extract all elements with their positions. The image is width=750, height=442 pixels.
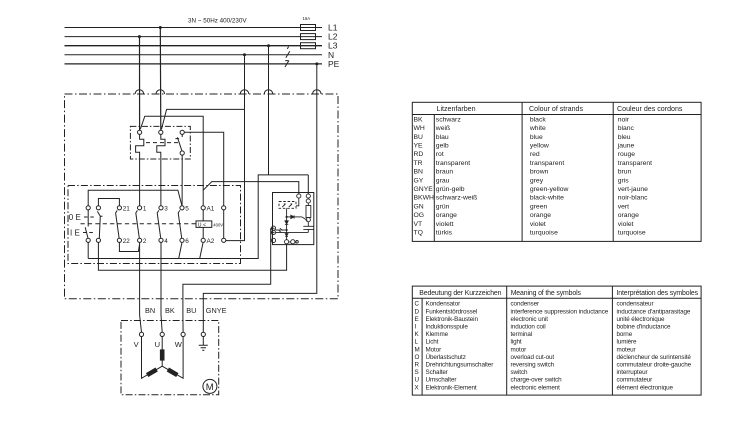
svg-text:R: R — [415, 362, 420, 369]
wire N tap down to link terminal — [226, 55, 245, 241]
motor earth terminal circle — [201, 332, 205, 336]
wire pole1 node to coil A1 — [140, 116, 203, 206]
module sensor dashed box — [279, 202, 296, 209]
svg-text:grau: grau — [436, 177, 450, 184]
cable entry arc L1 tap — [156, 90, 165, 94]
svg-text:yellow: yellow — [530, 143, 549, 150]
svg-text:rot: rot — [436, 151, 444, 158]
disconnect mark on PE — [285, 60, 289, 67]
wire terminal 4 down to motor U — [161, 242, 162, 332]
svg-text:schwarz-weiß: schwarz-weiß — [436, 195, 478, 202]
pushbutton contact a bottom circle — [86, 238, 90, 242]
svg-text:Meaning of the symbols: Meaning of the symbols — [511, 290, 582, 297]
svg-text:GNYE: GNYE — [206, 306, 227, 315]
svg-text:GN: GN — [414, 203, 424, 210]
module left vertical wire — [286, 217, 288, 240]
svg-text:Couleur des cordons: Couleur des cordons — [617, 105, 683, 113]
svg-text:9: 9 — [295, 241, 297, 245]
pushbutton contact a top circle — [86, 206, 90, 210]
svg-text:Interprétation des symboles: Interprétation des symboles — [617, 290, 699, 297]
svg-text:brown: brown — [530, 169, 549, 176]
wire module right-top feed — [307, 175, 309, 194]
machine enclosure boundary (dash-dot box) — [65, 94, 339, 299]
svg-text:OG: OG — [414, 212, 425, 219]
svg-text:BK: BK — [165, 306, 175, 315]
svg-text:BU: BU — [186, 306, 196, 315]
svg-text:Klemme: Klemme — [426, 331, 449, 338]
svg-text:Überlastschutz: Überlastschutz — [426, 353, 466, 361]
svg-text:U <: U < — [198, 222, 206, 228]
wire terminal 2 down to motor V — [140, 242, 142, 332]
module inner wire left terminal to dot — [276, 229, 287, 231]
contact 1-2 bottom circle — [138, 238, 142, 242]
svg-text:E: E — [415, 316, 419, 323]
svg-text:orange: orange — [530, 212, 551, 219]
svg-text:green: green — [530, 203, 548, 210]
link terminal bottom circle — [222, 238, 226, 242]
svg-text:vert: vert — [618, 203, 629, 210]
svg-text:22: 22 — [123, 238, 131, 245]
contact 3-4 top circle — [159, 206, 163, 210]
svg-text:RD: RD — [414, 151, 424, 158]
motor symbol M circle — [203, 379, 217, 393]
svg-text:grey: grey — [530, 177, 544, 184]
svg-text:BN: BN — [145, 306, 155, 315]
svg-text:2: 2 — [143, 238, 147, 245]
module bottom terminal tiny circle — [296, 241, 299, 244]
svg-text:interference suppression induc: interference suppression inductance — [511, 308, 609, 315]
wire bridge contact b top to terminal 21 — [98, 199, 119, 206]
svg-text:élément électronique: élément électronique — [617, 384, 674, 391]
svg-text:Umschalter: Umschalter — [426, 377, 457, 384]
svg-text:electronic unit: electronic unit — [511, 316, 549, 323]
wire contact a bottom to L3 net — [87, 242, 89, 258]
fuse F3 — [301, 43, 316, 49]
svg-text:3: 3 — [164, 206, 168, 213]
wire contact b bottom to module bottom terminal — [98, 242, 286, 270]
cable entry arc L2 tap — [135, 90, 144, 94]
svg-text:blue: blue — [530, 134, 543, 141]
svg-text:light: light — [511, 339, 522, 346]
svg-text:Drehrichtungsumschalter: Drehrichtungsumschalter — [426, 362, 494, 369]
svg-text:U: U — [155, 340, 160, 349]
svg-text:BKWH: BKWH — [414, 195, 434, 202]
motor M boundary (dash-dot box) — [121, 321, 219, 395]
coil terminal A1 circle — [201, 206, 205, 210]
svg-text:A2: A2 — [207, 238, 215, 245]
off button link dashes — [84, 216, 95, 218]
svg-text:unité électronique: unité électronique — [617, 316, 666, 323]
svg-text:vert-jaune: vert-jaune — [618, 186, 648, 193]
module bottom terminal circle 1 — [285, 240, 289, 244]
motor terminal U circle — [160, 332, 164, 336]
fuse F1 with rating 16A — [301, 16, 316, 31]
overload pole 1 heater element and wire down to terminal 1 — [136, 134, 144, 205]
svg-text:grün-gelb: grün-gelb — [436, 186, 465, 193]
svg-text:türkis: türkis — [436, 230, 453, 237]
svg-text:U: U — [415, 377, 420, 384]
module light arrows — [279, 228, 283, 233]
contact 5-6 lever — [178, 210, 182, 238]
svg-text:S: S — [415, 369, 419, 376]
svg-text:Motor: Motor — [426, 346, 442, 353]
module transistor lines — [302, 217, 309, 226]
svg-text:0 E: 0 E — [69, 213, 81, 222]
table 1 headers — [437, 105, 683, 113]
contact 3-4 lever — [157, 210, 161, 238]
svg-text:brun: brun — [618, 169, 632, 176]
svg-text:Elektronik-Baustein: Elektronik-Baustein — [426, 316, 479, 323]
svg-text:reversing switch: reversing switch — [511, 362, 555, 369]
svg-text:O: O — [415, 354, 420, 361]
svg-text:gelb: gelb — [436, 143, 449, 150]
wire L1 rail — [65, 27, 323, 29]
module left terminal circle 3 — [271, 238, 275, 242]
contact 5-6 bottom circle — [180, 238, 184, 242]
junction dot on L2 — [138, 35, 141, 38]
overload auxiliary contact lever — [175, 134, 182, 151]
contact 21-22 top circle — [117, 206, 121, 210]
wire aux contact top to link terminal (N side) — [184, 132, 223, 205]
electronic module X box — [273, 193, 314, 245]
svg-text:condenser: condenser — [511, 301, 540, 308]
svg-text:V: V — [134, 340, 139, 349]
contact 5-6 top circle — [180, 206, 184, 210]
motor winding W element (black) — [167, 368, 179, 378]
svg-text:W: W — [175, 340, 183, 349]
wire module left terminals down and across to motor W — [183, 228, 275, 332]
svg-text:weiß: weiß — [435, 125, 450, 132]
svg-text:white: white — [529, 125, 546, 132]
svg-text:A1: A1 — [207, 206, 215, 213]
svg-text:commutateur: commutateur — [617, 377, 653, 384]
svg-text:noir-blanc: noir-blanc — [618, 195, 648, 202]
svg-text:noir: noir — [618, 116, 630, 123]
svg-text:transparent: transparent — [618, 160, 652, 167]
contact 1-2 lever — [136, 210, 140, 238]
svg-text:BN: BN — [414, 169, 424, 176]
ground symbol — [199, 337, 208, 351]
svg-text:6: 6 — [289, 241, 291, 245]
module resistor R — [306, 206, 311, 218]
disconnect mark on N — [286, 47, 290, 58]
svg-text:Elektronik-Element: Elektronik-Element — [426, 384, 477, 391]
module sensor arrow 2 — [289, 204, 292, 207]
svg-text:YE: YE — [414, 143, 424, 150]
svg-text:violet: violet — [530, 221, 546, 228]
wire PE rail — [65, 63, 323, 65]
module wire terminal to resistor — [307, 203, 309, 205]
module bottom terminal circle 2 — [291, 240, 295, 244]
module top-right terminal — [306, 194, 310, 198]
junction dot on L3 — [267, 44, 270, 47]
module capacitor C plates — [303, 226, 314, 229]
module diode D3 small (down pointing) — [285, 234, 288, 237]
module middle horizontal wire — [287, 216, 302, 218]
svg-text:green-yellow: green-yellow — [530, 186, 569, 193]
svg-text:moteur: moteur — [617, 346, 636, 353]
svg-text:21: 21 — [123, 206, 131, 213]
wire L3 tap down — [268, 46, 270, 175]
svg-text:M: M — [206, 382, 214, 393]
motor terminal W circle — [181, 332, 185, 336]
svg-text:electronic element: electronic element — [511, 384, 561, 391]
svg-text:GNYE: GNYE — [414, 186, 434, 193]
svg-text:blanc: blanc — [618, 125, 635, 132]
module left terminal circle 1 — [271, 226, 275, 230]
svg-text:Schalter: Schalter — [426, 369, 448, 376]
pushbutton contact b bottom circle — [96, 238, 100, 242]
pushbutton contact b lever — [97, 211, 102, 238]
svg-text:D: D — [415, 308, 420, 315]
wire A1 branch to electronic module — [203, 182, 299, 194]
cable entry arc PE tap — [313, 90, 322, 94]
pushbutton contact a stem and lever — [85, 210, 88, 238]
svg-text:transparent: transparent — [436, 160, 470, 167]
table 1 column separators — [434, 102, 613, 241]
table 2 column separators — [422, 286, 612, 395]
svg-text:orange: orange — [436, 212, 457, 219]
motor winding U element (black) — [160, 349, 165, 360]
svg-text:3N ~ 50Hz 400/230V: 3N ~ 50Hz 400/230V — [188, 18, 247, 25]
svg-text:schwarz: schwarz — [436, 116, 462, 123]
module top-right second terminal — [306, 199, 310, 203]
svg-text:Litzenfarben: Litzenfarben — [437, 105, 476, 113]
svg-text:motor: motor — [511, 346, 527, 353]
wire PE tap down and across to motor earth — [203, 64, 316, 332]
overload pole 1 terminal circle — [138, 130, 142, 134]
svg-text:L: L — [415, 339, 419, 346]
motor winding U wire — [161, 337, 163, 367]
thermal overload relay O (dash-dot box) — [130, 126, 190, 159]
module output circle — [306, 218, 310, 222]
module sensor down wire — [286, 208, 288, 217]
svg-text:1: 1 — [143, 206, 147, 213]
table 2 headers — [419, 290, 698, 297]
wire L2 rail — [65, 36, 323, 38]
svg-text:black-white: black-white — [530, 195, 564, 202]
svg-text:4: 4 — [164, 238, 168, 245]
wire L3 distribution: across, down-left to bottom net, down-right to module — [88, 175, 308, 259]
svg-text:jaune: jaune — [617, 143, 635, 150]
table 2: symbol meanings, border — [412, 286, 701, 395]
svg-text:overload cut-out: overload cut-out — [511, 354, 555, 361]
svg-text:violett: violett — [436, 221, 454, 228]
svg-text:I E: I E — [70, 229, 80, 238]
coil terminal A2 circle — [201, 238, 205, 242]
svg-text:bobine d'inductance: bobine d'inductance — [617, 324, 672, 331]
svg-text:violet: violet — [618, 221, 634, 228]
module junction dot 1 — [286, 216, 288, 218]
contact 21-22 bottom circle — [117, 238, 121, 242]
contact 1-2 top circle — [138, 206, 142, 210]
contact 3-4 bottom circle — [159, 238, 163, 242]
svg-text:charge-over switch: charge-over switch — [511, 377, 563, 384]
wire L1 tap down to overload pole 2 — [159, 28, 162, 131]
svg-text:transparent: transparent — [530, 160, 564, 167]
cable entry arc N tap — [240, 90, 249, 94]
module left terminal circle 2 — [271, 230, 275, 234]
svg-text:terminal: terminal — [511, 331, 533, 338]
svg-text:WH: WH — [414, 125, 425, 132]
svg-text:blau: blau — [436, 134, 449, 141]
svg-text:Funkentstördrossel: Funkentstördrossel — [426, 308, 478, 315]
switch unit boundary (dash-dot box) — [68, 186, 241, 264]
svg-text:lumière: lumière — [617, 339, 638, 346]
junction dot on L1 — [159, 26, 162, 29]
svg-text:borne: borne — [617, 331, 633, 338]
svg-text:turquoise: turquoise — [530, 230, 558, 237]
overload pole 2 terminal circle — [159, 130, 163, 134]
link terminal top circle — [222, 206, 226, 210]
module diode D1 (right pointing) — [291, 215, 294, 218]
svg-text:VT: VT — [414, 221, 423, 228]
svg-text:5: 5 — [185, 206, 189, 213]
svg-text:commutateur droite-gauche: commutateur droite-gauche — [617, 362, 692, 369]
motor winding V wire — [142, 337, 163, 379]
svg-text:GY: GY — [414, 177, 424, 184]
overload auxiliary contact lower circle — [180, 151, 184, 155]
junction dot on N — [243, 53, 246, 56]
table 2 header separator — [412, 297, 701, 299]
svg-text:interrupteur: interrupteur — [617, 369, 648, 376]
module wire top-left terminal into sensor — [296, 198, 299, 206]
junction dot on PE — [315, 62, 318, 65]
svg-text:rouge: rouge — [618, 151, 636, 158]
svg-text:switch: switch — [511, 369, 528, 376]
wire aux contact bottom to terminal 5 — [181, 155, 183, 206]
svg-text:BK: BK — [414, 116, 424, 123]
link terminal connecting wire — [223, 210, 225, 238]
wire L2 tap down to overload pole 1 — [139, 37, 141, 131]
module wire capacitor to bottom — [307, 229, 309, 232]
table 1 header separator — [412, 114, 701, 116]
fuse F2 — [301, 34, 316, 40]
switch mechanical link line (dashed) — [81, 223, 197, 225]
cable entry arc L3 tap — [264, 90, 273, 94]
svg-text:Induktionsspule: Induktionsspule — [426, 324, 469, 331]
svg-text:6: 6 — [185, 238, 189, 245]
table 1 body — [414, 116, 653, 236]
wire pole2 node across to N drop — [162, 109, 245, 129]
motor winding V element (black) — [146, 368, 158, 378]
svg-text:TR: TR — [414, 160, 423, 167]
pushbutton contact b top circle — [96, 206, 100, 210]
svg-text:16A: 16A — [303, 16, 311, 21]
svg-text:turquoise: turquoise — [618, 230, 646, 237]
svg-text:grün: grün — [436, 203, 450, 210]
svg-text:C: C — [415, 301, 420, 308]
wire L3 rail — [65, 45, 323, 47]
overload mechanical link (dashed) — [146, 142, 179, 144]
module top-left terminal — [297, 194, 301, 198]
wire bridge contact a top to terminal 5 — [88, 190, 182, 206]
svg-text:TQ: TQ — [414, 230, 423, 237]
svg-text:X: X — [415, 384, 420, 391]
wire A1 to A2 through release — [202, 210, 204, 238]
overload auxiliary contact upper circle — [180, 130, 184, 134]
svg-text:inductance d'antiparasitage: inductance d'antiparasitage — [617, 308, 691, 315]
module inner wire across at capacitor level — [276, 231, 309, 233]
overload pole 2 heater element and wire down to terminal 3 — [157, 134, 165, 205]
module diode D2 (down pointing) — [285, 221, 288, 225]
module sensor arrow 1 — [282, 204, 285, 207]
svg-text:Colour of strands: Colour of strands — [529, 105, 583, 113]
wire bridge terminal 22 to terminal 2 — [119, 242, 139, 251]
on button link dashes — [83, 232, 93, 234]
wire terminal 6 diagonal to L3 net — [179, 243, 182, 259]
svg-text:BU: BU — [414, 134, 424, 141]
table 1: strand colours, border — [412, 102, 701, 241]
table 2 body — [415, 301, 692, 392]
module junction dot 2 — [286, 229, 288, 231]
svg-text:condensateur: condensateur — [617, 301, 654, 308]
svg-text:black: black — [530, 116, 546, 123]
wire terminal A2 diagonal to L3 net — [200, 243, 203, 259]
svg-text:Licht: Licht — [426, 339, 439, 346]
svg-text:400V: 400V — [213, 223, 223, 228]
svg-text:I: I — [415, 324, 417, 331]
contact 21-22 lever — [116, 210, 120, 238]
wire N rail — [65, 54, 323, 56]
motor winding W wire — [162, 337, 183, 379]
svg-text:M: M — [415, 346, 420, 353]
svg-text:braun: braun — [436, 169, 454, 176]
motor terminal V circle — [139, 332, 143, 336]
svg-text:déclencheur de surintensité: déclencheur de surintensité — [617, 354, 692, 361]
svg-text:orange: orange — [618, 212, 639, 219]
svg-text:Bedeutung der Kurzzeichen: Bedeutung der Kurzzeichen — [419, 290, 501, 297]
svg-text:PE: PE — [328, 59, 340, 69]
svg-text:induction coil: induction coil — [511, 324, 546, 331]
svg-text:gris: gris — [618, 177, 630, 184]
svg-text:Kondensator: Kondensator — [426, 301, 461, 308]
svg-text:bleu: bleu — [618, 134, 631, 141]
undervoltage release U-less box — [196, 221, 212, 228]
svg-text:red: red — [530, 151, 540, 158]
svg-text:K: K — [415, 331, 420, 338]
